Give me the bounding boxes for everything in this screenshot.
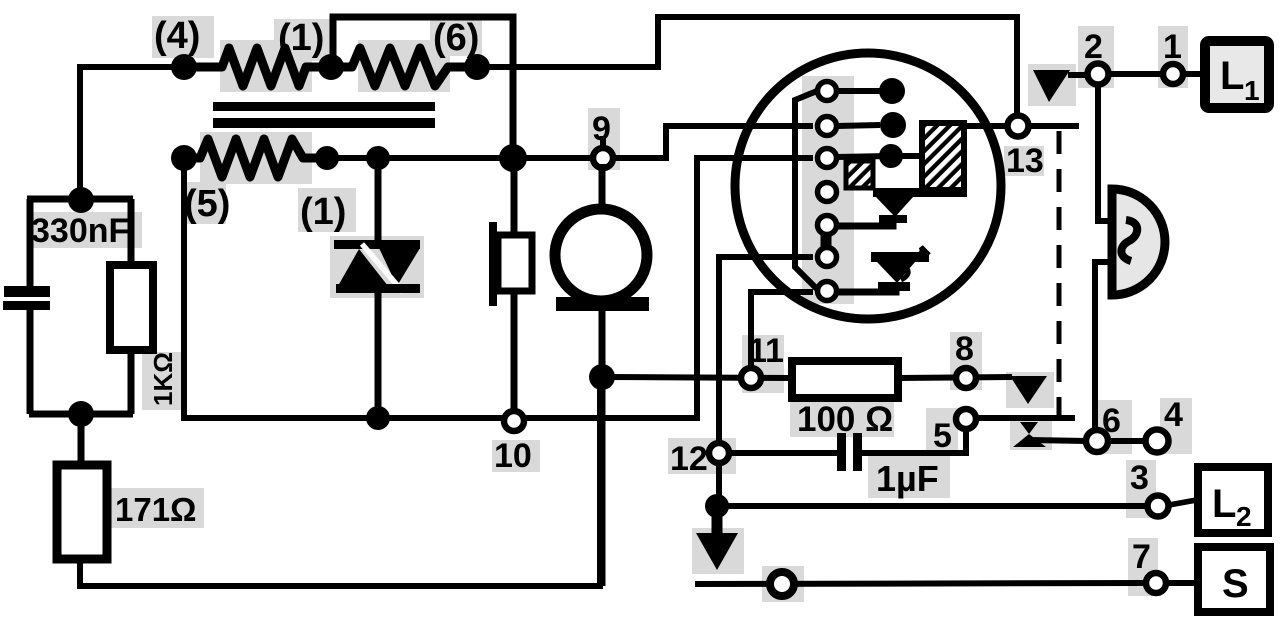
IC pin 2: [818, 117, 837, 136]
svg-text:5: 5: [933, 417, 952, 455]
svg-text:(6): (6): [433, 17, 479, 59]
diode pair on node 6 wire: [1013, 422, 1087, 447]
wire bell down to node 6: [1095, 262, 1112, 432]
IC thyristor 2: [837, 247, 929, 292]
svg-text:(1): (1): [278, 17, 324, 59]
node rail triac tap: [366, 146, 390, 170]
node motor tap: [589, 364, 615, 390]
wire node 12 to capacitor 1uF: [729, 450, 838, 456]
wire node 2 to node 1: [1109, 71, 1163, 77]
node 4: [1146, 396, 1184, 453]
IC resistor hatched big: [922, 123, 964, 190]
node 11: [741, 332, 784, 388]
svg-text:330nF: 330nF: [31, 212, 129, 250]
svg-text:13: 13: [1006, 142, 1044, 180]
wire resistor 100 to node 8: [898, 377, 1012, 378]
svg-text:9: 9: [592, 110, 611, 148]
svg-text:L: L: [1212, 482, 1236, 526]
capacitor 1uF: [837, 433, 939, 499]
wire node9 jog to IC pin2: [613, 126, 813, 158]
svg-text:(5): (5): [184, 183, 230, 225]
node rail mid: [315, 146, 339, 170]
lamp L2: [1198, 467, 1268, 533]
dashed actuator line: [1057, 131, 1062, 418]
node 7: [1132, 538, 1166, 593]
node 5: [933, 409, 976, 455]
IC thyristor 1: [837, 197, 913, 226]
IC pin 6: [818, 248, 837, 267]
svg-text:8: 8: [955, 330, 974, 368]
wire node 12 down to node 3 line: [716, 463, 722, 498]
node 9: [592, 110, 613, 168]
node 13: [1006, 116, 1044, 181]
wire IC pin6 to node 12: [719, 257, 813, 444]
wire capacitor 1uF to node 5: [862, 429, 966, 453]
wire left rail down and bottom run to node 10: [184, 158, 813, 418]
node 6: [1086, 402, 1121, 452]
wire node 6 to node 4: [1108, 438, 1146, 444]
svg-text:1: 1: [1244, 75, 1260, 106]
node 2: [1084, 28, 1109, 85]
wire node 13 right: [1029, 123, 1079, 129]
IC resistor hatched small: [846, 161, 873, 188]
wire secondary rail y158: [327, 155, 603, 161]
svg-text:(1): (1): [300, 191, 346, 233]
wire node 1 to lamp L1: [1184, 71, 1206, 77]
svg-text:6: 6: [1102, 402, 1121, 440]
resistor 100 ohm: [792, 361, 898, 439]
IC pin 5: [818, 216, 837, 235]
resistor R(6): [331, 48, 477, 86]
wire arrow to node 2: [1068, 72, 1088, 78]
wire node 5 right: [976, 415, 1075, 421]
IC pin3 line and dot: [837, 156, 925, 190]
svg-text:10: 10: [494, 437, 532, 475]
IC anode bar: [873, 188, 967, 197]
resistor R(1): [184, 48, 331, 86]
node junction R1-R6: [318, 54, 344, 80]
capacitor 330nF branch: [3, 199, 133, 414]
capacitor box component at node 10 branch: [489, 158, 532, 412]
resistor R(5): [184, 139, 327, 177]
node top left: [68, 187, 94, 213]
wire top bypass from node between R(1) R(6) to node on lower rail: [333, 17, 513, 153]
lamp L1: [1205, 41, 1269, 108]
svg-text:1: 1: [1163, 28, 1182, 66]
IC pin 1: [818, 82, 837, 101]
IC pin5-6 link: [821, 232, 832, 250]
IC pin bus 1-4-7: [795, 91, 818, 290]
ground arrow: [696, 515, 738, 570]
svg-text:1µF: 1µF: [876, 458, 939, 499]
svg-text:L: L: [1220, 54, 1244, 98]
svg-text:3: 3: [1130, 459, 1149, 497]
node junction ground tap: [705, 494, 729, 518]
wire node (4) to left branch: [80, 67, 184, 197]
wire to node 3: [717, 503, 1148, 509]
wire bottom left run: [80, 377, 600, 586]
wire node 11 up to IC pin7: [751, 292, 813, 368]
node 12: [670, 440, 729, 478]
svg-text:2: 2: [1084, 28, 1103, 66]
node 1: [1163, 28, 1183, 84]
node 10: [494, 411, 532, 475]
bell: [1112, 189, 1165, 295]
node bottom left: [68, 401, 94, 427]
node rail right: [499, 144, 527, 172]
IC pin2 line and dot: [837, 125, 880, 126]
IC pin1 line and dot: [837, 88, 880, 94]
wire switch S line: [695, 583, 1148, 584]
wire node motor to node 11 and resistor 100: [602, 377, 792, 378]
svg-text:2: 2: [1236, 501, 1252, 532]
contact arrow at node 2: [1033, 70, 1070, 102]
wire from R(6) right node to node 13: [477, 17, 1017, 116]
contact arrow at node 8: [1010, 376, 1047, 404]
svg-text:S: S: [1222, 562, 1249, 606]
node 3: [1130, 459, 1169, 517]
motor: [555, 164, 649, 586]
node R6 right: [464, 54, 490, 80]
node rail left: [171, 145, 197, 171]
connector bottom: [770, 572, 794, 596]
svg-text:1KΩ: 1KΩ: [148, 352, 178, 406]
svg-text:(4): (4): [154, 15, 200, 57]
svg-text:4: 4: [1164, 396, 1183, 434]
resistor 1K box: [110, 199, 178, 414]
wire IC right to node 13: [960, 123, 1008, 129]
resistor 171 ohm: [57, 414, 197, 559]
svg-text:12: 12: [670, 440, 708, 478]
IC pin 7: [818, 282, 837, 301]
svg-text:171Ω: 171Ω: [115, 491, 197, 528]
wire node 2 down to bell: [1098, 85, 1112, 221]
switch S box: [1166, 547, 1270, 612]
triac (1): [334, 158, 420, 418]
IC module circle: [735, 53, 1001, 319]
IC pin 3: [818, 149, 837, 168]
svg-text:7: 7: [1132, 538, 1151, 576]
transformer core bars: [213, 102, 435, 128]
IC pin 4: [818, 183, 837, 202]
node 8: [955, 330, 976, 388]
wire node 3 to lamp L2: [1169, 499, 1202, 505]
node (4): [171, 54, 197, 80]
node triac bottom: [366, 406, 390, 430]
